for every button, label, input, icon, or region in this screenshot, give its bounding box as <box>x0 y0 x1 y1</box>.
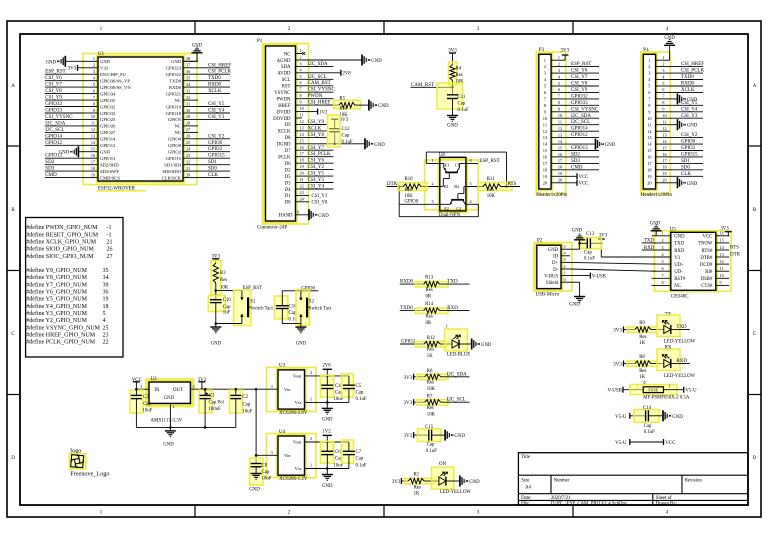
svg-text:Cap: Cap <box>458 101 466 106</box>
svg-text:28: 28 <box>186 121 190 126</box>
svg-text:CSI_Y2: CSI_Y2 <box>208 134 225 139</box>
svg-text:B2: B2 <box>454 184 459 189</box>
svg-text:CMD/SCS: CMD/SCS <box>100 175 120 180</box>
svg-text:U1: U1 <box>98 52 105 57</box>
svg-text:10K: 10K <box>340 113 349 118</box>
svg-text:GND: GND <box>605 143 616 148</box>
svg-text:U4: U4 <box>279 430 286 435</box>
svg-text:C13: C13 <box>586 232 595 237</box>
svg-text:CSI_Y9: CSI_Y9 <box>571 88 588 93</box>
svg-text:#define PWDN_GPIO_NUM: #define PWDN_GPIO_NUM <box>26 224 98 231</box>
svg-text:5: 5 <box>558 81 560 86</box>
svg-text:TXD0: TXD0 <box>681 75 694 80</box>
svg-text:GPIO15: GPIO15 <box>208 154 225 159</box>
svg-text:9: 9 <box>558 107 560 112</box>
svg-text:1K: 1K <box>639 375 645 380</box>
svg-text:C5: C5 <box>356 384 362 389</box>
svg-text:MF-PSMF050X-2 0.5A: MF-PSMF050X-2 0.5A <box>643 396 690 401</box>
svg-text:39: 39 <box>103 282 109 288</box>
svg-text:GPIO14: GPIO14 <box>100 137 116 142</box>
svg-text:ESP_RST: ESP_RST <box>45 70 65 75</box>
svg-text:3V3: 3V3 <box>392 480 401 485</box>
svg-text:P3: P3 <box>539 48 545 53</box>
svg-text:30: 30 <box>186 108 190 113</box>
svg-text:CLK: CLK <box>208 173 218 178</box>
svg-text:RTS#: RTS# <box>701 249 713 254</box>
svg-text:Res: Res <box>426 315 433 320</box>
svg-text:19: 19 <box>103 297 109 303</box>
svg-text:SD2/SHD: SD2/SHD <box>100 163 119 168</box>
svg-text:2: 2 <box>300 55 302 60</box>
svg-text:#define Y4_GPIO_NUM: #define Y4_GPIO_NUM <box>26 303 87 310</box>
svg-text:3V3: 3V3 <box>68 67 77 72</box>
svg-text:100uF: 100uF <box>209 407 222 412</box>
svg-text:Res: Res <box>340 106 347 111</box>
svg-text:0R: 0R <box>426 321 432 326</box>
svg-text:GND: GND <box>687 182 698 187</box>
svg-text:GPIO2: GPIO2 <box>208 147 223 152</box>
svg-text:3: 3 <box>271 450 273 455</box>
svg-text:#define Y7_GPIO_NUM: #define Y7_GPIO_NUM <box>26 281 87 288</box>
svg-text:CSI_Y5: CSI_Y5 <box>308 172 325 177</box>
svg-text:I2C_SDA: I2C_SDA <box>571 114 591 119</box>
svg-text:GPIO12: GPIO12 <box>45 141 62 146</box>
svg-text:GND: GND <box>674 235 685 240</box>
svg-text:CSI_Y9: CSI_Y9 <box>45 96 62 101</box>
svg-text:#define Y2_GPIO_NUM: #define Y2_GPIO_NUM <box>26 317 87 324</box>
svg-text:#define SIOC_GPIO_NUM: #define SIOC_GPIO_NUM <box>26 253 94 260</box>
svg-text:R5: R5 <box>340 97 346 102</box>
svg-text:Res: Res <box>639 369 646 374</box>
svg-text:ESP32-WROVER: ESP32-WROVER <box>98 187 136 192</box>
svg-text:20: 20 <box>186 172 190 177</box>
svg-text:D: D <box>11 456 15 461</box>
svg-text:CSI_Y3: CSI_Y3 <box>308 178 325 183</box>
svg-text:21: 21 <box>107 240 113 246</box>
svg-text:Freenove_Logo: Freenove_Logo <box>70 471 109 478</box>
svg-text:V3: V3 <box>674 256 680 261</box>
svg-text:10K: 10K <box>427 387 436 392</box>
svg-text:CH340C: CH340C <box>671 294 689 299</box>
svg-text:V-BUS: V-BUS <box>544 274 558 279</box>
svg-text:12: 12 <box>558 126 562 131</box>
svg-text:D0: D0 <box>285 201 291 206</box>
svg-text:1: 1 <box>564 270 566 275</box>
svg-text:Res: Res <box>427 381 434 386</box>
svg-text:CSI_Y7: CSI_Y7 <box>571 75 588 80</box>
svg-text:GPIO33: GPIO33 <box>571 101 588 106</box>
svg-text:11: 11 <box>300 113 304 118</box>
svg-text:1uF: 1uF <box>223 310 231 315</box>
svg-text:D1: D1 <box>285 194 291 199</box>
svg-text:7: 7 <box>558 94 560 99</box>
svg-text:1: 1 <box>662 231 664 236</box>
svg-text:I2C_SDA: I2C_SDA <box>447 372 467 377</box>
svg-text:Res: Res <box>426 288 433 293</box>
svg-text:CSI_Y2: CSI_Y2 <box>681 133 698 138</box>
svg-text:11: 11 <box>558 120 562 125</box>
svg-text:GPIO19: GPIO19 <box>166 104 182 109</box>
svg-text:GPIO35: GPIO35 <box>100 98 116 103</box>
svg-text:E2: E2 <box>444 206 449 211</box>
svg-text:GPIO13: GPIO13 <box>100 156 116 161</box>
svg-text:Revision: Revision <box>685 479 703 484</box>
svg-text:1: 1 <box>648 58 650 63</box>
svg-text:Size: Size <box>521 479 529 484</box>
svg-text:Cap: Cap <box>342 134 350 139</box>
svg-text:R6: R6 <box>427 369 433 374</box>
svg-text:CSI_VYSNC: CSI_VYSNC <box>45 115 73 120</box>
svg-text:Res: Res <box>427 347 434 352</box>
svg-text:ON: ON <box>439 462 447 467</box>
svg-text:U5: U5 <box>670 227 677 232</box>
svg-text:15: 15 <box>300 138 304 143</box>
svg-text:18: 18 <box>103 304 109 310</box>
svg-text:GPIO22: GPIO22 <box>166 72 182 77</box>
svg-text:SD1: SD1 <box>681 159 690 164</box>
svg-text:C1: C1 <box>209 393 215 398</box>
svg-text:GND: GND <box>374 143 385 148</box>
svg-text:16: 16 <box>91 153 95 158</box>
svg-text:R12: R12 <box>427 336 436 341</box>
svg-text:GND: GND <box>469 480 480 485</box>
svg-text:2: 2 <box>662 61 664 66</box>
svg-text:6: 6 <box>558 87 560 92</box>
svg-text:GPIO27: GPIO27 <box>100 130 116 135</box>
svg-text:I2C_SCL: I2C_SCL <box>447 398 466 403</box>
svg-text:#define Y6_GPIO_NUM: #define Y6_GPIO_NUM <box>26 289 87 296</box>
svg-text:C2: C2 <box>242 395 248 400</box>
svg-text:Res: Res <box>220 278 227 283</box>
svg-text:GPIO0: GPIO0 <box>208 141 223 146</box>
svg-text:GND: GND <box>672 415 683 420</box>
svg-text:GND: GND <box>46 60 57 65</box>
svg-text:U3: U3 <box>279 364 286 369</box>
svg-text:D9: D9 <box>285 123 291 128</box>
svg-text:10K: 10K <box>427 413 436 418</box>
svg-text:GPIO0: GPIO0 <box>681 140 696 145</box>
svg-text:I2C_SCL: I2C_SCL <box>308 75 327 80</box>
svg-text:V5-U: V5-U <box>685 389 697 394</box>
svg-text:U8: U8 <box>439 153 446 158</box>
svg-text:8: 8 <box>662 280 664 285</box>
svg-text:10K: 10K <box>220 285 229 290</box>
svg-text:VCC: VCC <box>579 175 589 180</box>
svg-text:2V8: 2V8 <box>342 72 351 77</box>
svg-text:GPIO2: GPIO2 <box>681 146 696 151</box>
svg-text:9: 9 <box>300 100 302 105</box>
svg-text:5: 5 <box>662 259 664 264</box>
svg-text:VCC: VCC <box>703 235 713 240</box>
svg-text:1: 1 <box>446 324 448 329</box>
svg-text:V33: V33 <box>100 66 109 71</box>
svg-text:UD-: UD- <box>674 270 683 275</box>
svg-text:Res: Res <box>639 335 646 340</box>
svg-text:20: 20 <box>558 178 562 183</box>
svg-text:GND: GND <box>59 151 70 156</box>
svg-text:TXD: TXD <box>644 239 654 244</box>
svg-text:27: 27 <box>186 127 190 132</box>
svg-text:GPIO32: GPIO32 <box>571 94 588 99</box>
svg-text:0.1uF: 0.1uF <box>644 430 655 435</box>
svg-text:DSR#: DSR# <box>701 277 713 282</box>
svg-text:GND: GND <box>378 104 389 109</box>
svg-text:CSI_Y8: CSI_Y8 <box>571 82 588 87</box>
svg-text:NC: NC <box>175 130 181 135</box>
svg-text:D:\PC..\ESP_CAM_PRO V1.4.SchDo: D:\PC..\ESP_CAM_PRO V1.4.SchDoc <box>551 501 627 506</box>
svg-text:GND: GND <box>322 484 333 489</box>
svg-text:CLK: CLK <box>681 172 691 177</box>
svg-text:18: 18 <box>91 166 95 171</box>
svg-text:1: 1 <box>544 58 546 63</box>
svg-text:0.1uF: 0.1uF <box>584 257 595 262</box>
svg-text:15: 15 <box>91 147 95 152</box>
svg-text:1: 1 <box>558 55 560 60</box>
svg-text:D4: D4 <box>285 188 291 193</box>
svg-text:Cap: Cap <box>427 443 435 448</box>
svg-text:23: 23 <box>186 153 190 158</box>
svg-text:29: 29 <box>186 114 190 119</box>
svg-text:8: 8 <box>662 100 664 105</box>
svg-text:CSI_Y4: CSI_Y4 <box>208 109 225 114</box>
svg-text:0.1uF: 0.1uF <box>356 463 367 468</box>
svg-text:32: 32 <box>186 95 190 100</box>
svg-text:5: 5 <box>300 74 302 79</box>
svg-text:GND: GND <box>164 396 175 401</box>
svg-text:SD2: SD2 <box>571 152 580 157</box>
svg-text:DOVDD: DOVDD <box>273 117 291 122</box>
svg-text:I2C_SCL: I2C_SCL <box>45 128 64 133</box>
svg-text:A4: A4 <box>525 486 531 491</box>
svg-text:Res: Res <box>427 406 434 411</box>
svg-text:#define PCLK_GPIO_NUM: #define PCLK_GPIO_NUM <box>26 339 95 346</box>
svg-text:1: 1 <box>662 55 664 60</box>
svg-text:2: 2 <box>648 64 650 69</box>
svg-text:21: 21 <box>300 177 304 182</box>
svg-text:AVDD: AVDD <box>277 72 291 77</box>
svg-text:C4: C4 <box>335 384 341 389</box>
svg-text:10uF: 10uF <box>334 397 344 402</box>
svg-text:2: 2 <box>564 264 566 269</box>
svg-text:R14: R14 <box>425 302 434 307</box>
svg-text:Header1x20Pin: Header1x20Pin <box>536 193 568 198</box>
svg-text:#define Y9_GPIO_NUM: #define Y9_GPIO_NUM <box>26 267 87 274</box>
svg-text:HAND: HAND <box>279 214 293 219</box>
svg-text:GND: GND <box>569 303 580 308</box>
svg-text:10K: 10K <box>405 194 414 199</box>
svg-text:3: 3 <box>93 69 95 74</box>
svg-text:GPIO14: GPIO14 <box>571 127 588 132</box>
svg-text:P1: P1 <box>257 39 263 44</box>
svg-text:3V3: 3V3 <box>211 254 220 259</box>
svg-text:2: 2 <box>93 63 95 68</box>
svg-text:3V3: 3V3 <box>613 363 622 368</box>
svg-text:NC.: NC. <box>674 284 682 289</box>
svg-text:GPIO18: GPIO18 <box>166 111 182 116</box>
svg-text:Shield: Shield <box>546 281 559 286</box>
svg-text:CSI_Y1: CSI_Y1 <box>312 194 328 199</box>
svg-text:TXD: TXD <box>447 280 458 285</box>
svg-text:CSI_Y0: CSI_Y0 <box>312 201 328 206</box>
svg-text:D: D <box>753 456 757 461</box>
svg-text:C7: C7 <box>356 450 362 455</box>
svg-text:10uF: 10uF <box>142 409 152 414</box>
svg-text:3V3: 3V3 <box>403 434 412 439</box>
svg-text:7: 7 <box>93 95 95 100</box>
svg-text:CSI_HREF: CSI_HREF <box>681 62 704 67</box>
svg-text:CSI_Y4: CSI_Y4 <box>308 185 325 190</box>
svg-text:6: 6 <box>662 87 664 92</box>
svg-text:25: 25 <box>186 140 190 145</box>
svg-text:19: 19 <box>91 172 95 177</box>
svg-text:Switch Tact: Switch Tact <box>250 306 273 311</box>
svg-text:1: 1 <box>93 56 95 61</box>
svg-text:C11: C11 <box>458 95 466 100</box>
svg-text:5: 5 <box>470 181 472 186</box>
svg-text:#define SIOD_GPIO_NUM: #define SIOD_GPIO_NUM <box>26 246 94 253</box>
svg-text:0.1uF: 0.1uF <box>342 140 353 145</box>
svg-text:10: 10 <box>720 273 724 278</box>
svg-text:GPIO36/SS_VP: GPIO36/SS_VP <box>100 79 130 84</box>
svg-text:C3: C3 <box>143 395 149 400</box>
svg-text:SD0: SD0 <box>681 165 690 170</box>
svg-text:XC6206-1.2V: XC6206-1.2V <box>279 477 308 482</box>
svg-text:DGND: DGND <box>277 143 291 148</box>
svg-text:GPIO14: GPIO14 <box>45 134 62 139</box>
svg-text:3: 3 <box>662 68 664 73</box>
svg-text:9: 9 <box>662 107 664 112</box>
svg-text:PWDN: PWDN <box>308 94 323 99</box>
svg-text:GPIO33: GPIO33 <box>45 109 62 114</box>
svg-text:GND: GND <box>322 418 333 423</box>
svg-text:12: 12 <box>300 119 304 124</box>
svg-text:Cap: Cap <box>356 391 364 396</box>
svg-text:Cap: Cap <box>644 424 652 429</box>
svg-text:CSI_Y5: CSI_Y5 <box>208 102 225 107</box>
svg-text:1V2: 1V2 <box>322 430 331 435</box>
svg-text:10: 10 <box>558 113 562 118</box>
svg-text:CSI_PCLK: CSI_PCLK <box>681 69 704 74</box>
svg-text:CSI_Y7: CSI_Y7 <box>308 146 325 151</box>
svg-text:B1: B1 <box>444 184 449 189</box>
svg-text:5: 5 <box>564 244 566 249</box>
svg-text:3V3: 3V3 <box>403 376 412 381</box>
svg-text:3: 3 <box>564 257 566 262</box>
svg-text:RXD: RXD <box>644 246 655 251</box>
svg-text:GPIO25: GPIO25 <box>100 117 116 122</box>
svg-text:16: 16 <box>300 145 304 150</box>
svg-text:2: 2 <box>544 64 546 69</box>
svg-text:3V3: 3V3 <box>340 118 349 123</box>
svg-text:CSI_HREF: CSI_HREF <box>208 63 231 68</box>
svg-text:S1: S1 <box>250 299 256 304</box>
svg-text:Res: Res <box>414 485 421 490</box>
svg-text:34: 34 <box>103 275 109 281</box>
svg-text:6: 6 <box>470 158 472 163</box>
svg-text:15: 15 <box>662 145 666 150</box>
svg-text:13: 13 <box>720 252 724 257</box>
svg-text:26: 26 <box>186 134 190 139</box>
svg-text:USB-Micro: USB-Micro <box>536 293 560 298</box>
svg-text:GPIO34: GPIO34 <box>100 91 116 96</box>
svg-text:23: 23 <box>103 332 109 338</box>
svg-text:V5-U: V5-U <box>615 441 627 446</box>
svg-text:GPIO2: GPIO2 <box>168 150 182 155</box>
svg-text:31: 31 <box>186 101 190 106</box>
svg-text:21: 21 <box>186 166 190 171</box>
svg-text:Connector-24P: Connector-24P <box>257 226 287 231</box>
svg-text:C8: C8 <box>262 463 268 468</box>
svg-text:D8: D8 <box>285 136 291 141</box>
svg-text:11: 11 <box>720 266 724 271</box>
svg-text:10uF: 10uF <box>334 463 344 468</box>
svg-text:D3: D3 <box>285 181 291 186</box>
svg-text:17: 17 <box>300 151 304 156</box>
svg-text:CSI_Y3: CSI_Y3 <box>208 115 225 120</box>
svg-text:SCL: SCL <box>282 78 291 83</box>
svg-text:18: 18 <box>662 165 666 170</box>
svg-text:3: 3 <box>432 199 434 204</box>
svg-text:Cap: Cap <box>584 250 592 255</box>
svg-text:12: 12 <box>543 129 547 134</box>
svg-text:TNOW: TNOW <box>698 242 713 247</box>
svg-text:ID: ID <box>553 255 559 260</box>
svg-text:18: 18 <box>300 158 304 163</box>
svg-text:7: 7 <box>662 94 664 99</box>
svg-text:36: 36 <box>103 290 109 296</box>
svg-text:3V3: 3V3 <box>403 401 412 406</box>
svg-text:Cap: Cap <box>223 305 231 310</box>
svg-text:CSI_Y9: CSI_Y9 <box>308 120 325 125</box>
svg-text:Cap Pol: Cap Pol <box>209 400 225 405</box>
svg-text:CMD: CMD <box>45 173 57 178</box>
svg-text:CSI_Y3: CSI_Y3 <box>681 114 698 119</box>
svg-text:8: 8 <box>300 93 302 98</box>
svg-text:38: 38 <box>186 56 190 61</box>
svg-text:SD2: SD2 <box>45 160 54 165</box>
svg-text:DTR#: DTR# <box>700 256 713 261</box>
svg-text:0: 0 <box>564 277 566 282</box>
svg-text:SD1/SDI: SD1/SDI <box>164 163 181 168</box>
svg-text:Res: Res <box>405 188 412 193</box>
svg-text:6: 6 <box>93 88 95 93</box>
svg-text:9: 9 <box>93 108 95 113</box>
svg-text:GND: GND <box>318 214 329 219</box>
svg-text:0.1uF: 0.1uF <box>426 449 437 454</box>
svg-text:#define XCLK_GPIO_NUM: #define XCLK_GPIO_NUM <box>26 239 96 246</box>
svg-text:IN: IN <box>154 388 160 393</box>
svg-text:3: 3 <box>140 384 142 389</box>
svg-text:C1: C1 <box>455 163 460 168</box>
svg-text:9: 9 <box>720 280 722 285</box>
svg-text:CSI_Y4: CSI_Y4 <box>681 107 698 112</box>
svg-text:CAM_RST: CAM_RST <box>308 81 331 86</box>
svg-text:RTS: RTS <box>730 246 739 251</box>
svg-text:GPIO0: GPIO0 <box>168 143 182 148</box>
svg-text:6: 6 <box>300 80 302 85</box>
svg-text:1: 1 <box>173 404 175 409</box>
svg-text:20: 20 <box>662 178 666 183</box>
svg-text:GND: GND <box>664 36 675 41</box>
svg-text:D-: D- <box>553 268 558 273</box>
svg-text:CSI_Y6: CSI_Y6 <box>308 159 325 164</box>
svg-text:SD3: SD3 <box>45 167 54 172</box>
svg-text:GPIO21: GPIO21 <box>166 91 182 96</box>
svg-text:15: 15 <box>720 238 724 243</box>
svg-text:Header1x20Pin: Header1x20Pin <box>641 193 673 198</box>
svg-text:RXD0: RXD0 <box>208 83 222 88</box>
svg-text:GPIO23: GPIO23 <box>166 66 182 71</box>
